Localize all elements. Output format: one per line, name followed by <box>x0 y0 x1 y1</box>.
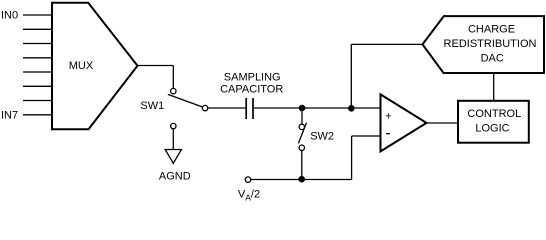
multiplexer MUX <box>52 3 138 130</box>
switch SW2 bottom terminal <box>299 145 304 150</box>
wire vertical rise to minus input <box>351 136 353 180</box>
terminal VA/2 <box>245 177 250 182</box>
switch SW2 top terminal <box>299 124 304 129</box>
wire IN2 stub <box>23 43 52 45</box>
ground AGND symbol <box>165 150 181 164</box>
wire mux output horizontal <box>138 65 174 67</box>
wire IN0 stub <box>23 14 52 16</box>
wire IN3 stub <box>23 57 52 59</box>
label CHARGE REDISTRIBUTION DAC <box>444 23 537 64</box>
svg-text:IN0: IN0 <box>1 10 18 22</box>
label CONTROL LOGIC <box>467 108 521 135</box>
label SAMPLING CAPACITOR <box>220 71 283 95</box>
switch SW1 throw terminal <box>202 105 207 110</box>
svg-text:CAPACITOR: CAPACITOR <box>220 84 283 96</box>
comparator U1 <box>381 94 427 151</box>
node A junction <box>299 105 306 112</box>
wire VA/2 to node C <box>251 179 302 181</box>
node C junction <box>298 176 305 183</box>
wire IN5 stub <box>23 85 52 87</box>
wire DAC to control logic <box>493 73 495 101</box>
wire SW1 to sampling capacitor <box>208 107 245 109</box>
svg-text:MUX: MUX <box>69 60 94 72</box>
svg-text:SW2: SW2 <box>310 130 334 142</box>
wire DAC feedback vertical <box>350 44 352 108</box>
svg-text:+: + <box>385 110 391 122</box>
wire IN7 stub <box>23 114 52 116</box>
wire node A to SW2 top terminal <box>301 108 303 124</box>
node B junction <box>348 105 355 112</box>
wire node A to node B <box>302 107 351 109</box>
wire node B to comparator plus input <box>351 107 380 109</box>
svg-text:SAMPLING: SAMPLING <box>224 71 281 83</box>
wire SW2 bottom terminal to node C <box>301 151 303 180</box>
svg-text:SW1: SW1 <box>140 100 164 112</box>
wire IN4 stub <box>23 71 52 73</box>
wire minus input horizontal <box>352 135 381 137</box>
label minus input <box>386 133 390 135</box>
wire IN1 stub <box>23 28 52 30</box>
svg-text:VA/2: VA/2 <box>238 189 260 203</box>
switch SW1 blade <box>168 94 202 107</box>
svg-text:IN7: IN7 <box>1 109 18 121</box>
svg-text:REDISTRIBUTION: REDISTRIBUTION <box>444 38 537 50</box>
wire comparator output to control logic <box>427 122 459 124</box>
capacitor C1 sampling capacitor <box>246 98 253 119</box>
switch SW1 lower terminal to AGND <box>171 123 176 128</box>
switch SW2 blade <box>298 123 306 144</box>
control logic block <box>458 101 529 143</box>
switch SW1 pole terminal <box>171 88 176 93</box>
wire node C to comparator minus branch <box>302 179 352 181</box>
dac CHARGE REDISTRIBUTION DAC <box>423 16 545 73</box>
svg-text:LOGIC: LOGIC <box>475 122 509 134</box>
wire IN6 stub <box>23 100 52 102</box>
svg-text:CONTROL: CONTROL <box>467 108 521 120</box>
wire SW1 lower terminal to ground <box>172 129 174 150</box>
wire capacitor to node A <box>254 107 302 109</box>
svg-text:CHARGE: CHARGE <box>468 23 515 35</box>
svg-text:DAC: DAC <box>481 53 504 65</box>
wire DAC feedback horizontal <box>351 43 422 45</box>
wire mux output vertical drop <box>172 66 174 89</box>
svg-text:AGND: AGND <box>159 171 191 183</box>
